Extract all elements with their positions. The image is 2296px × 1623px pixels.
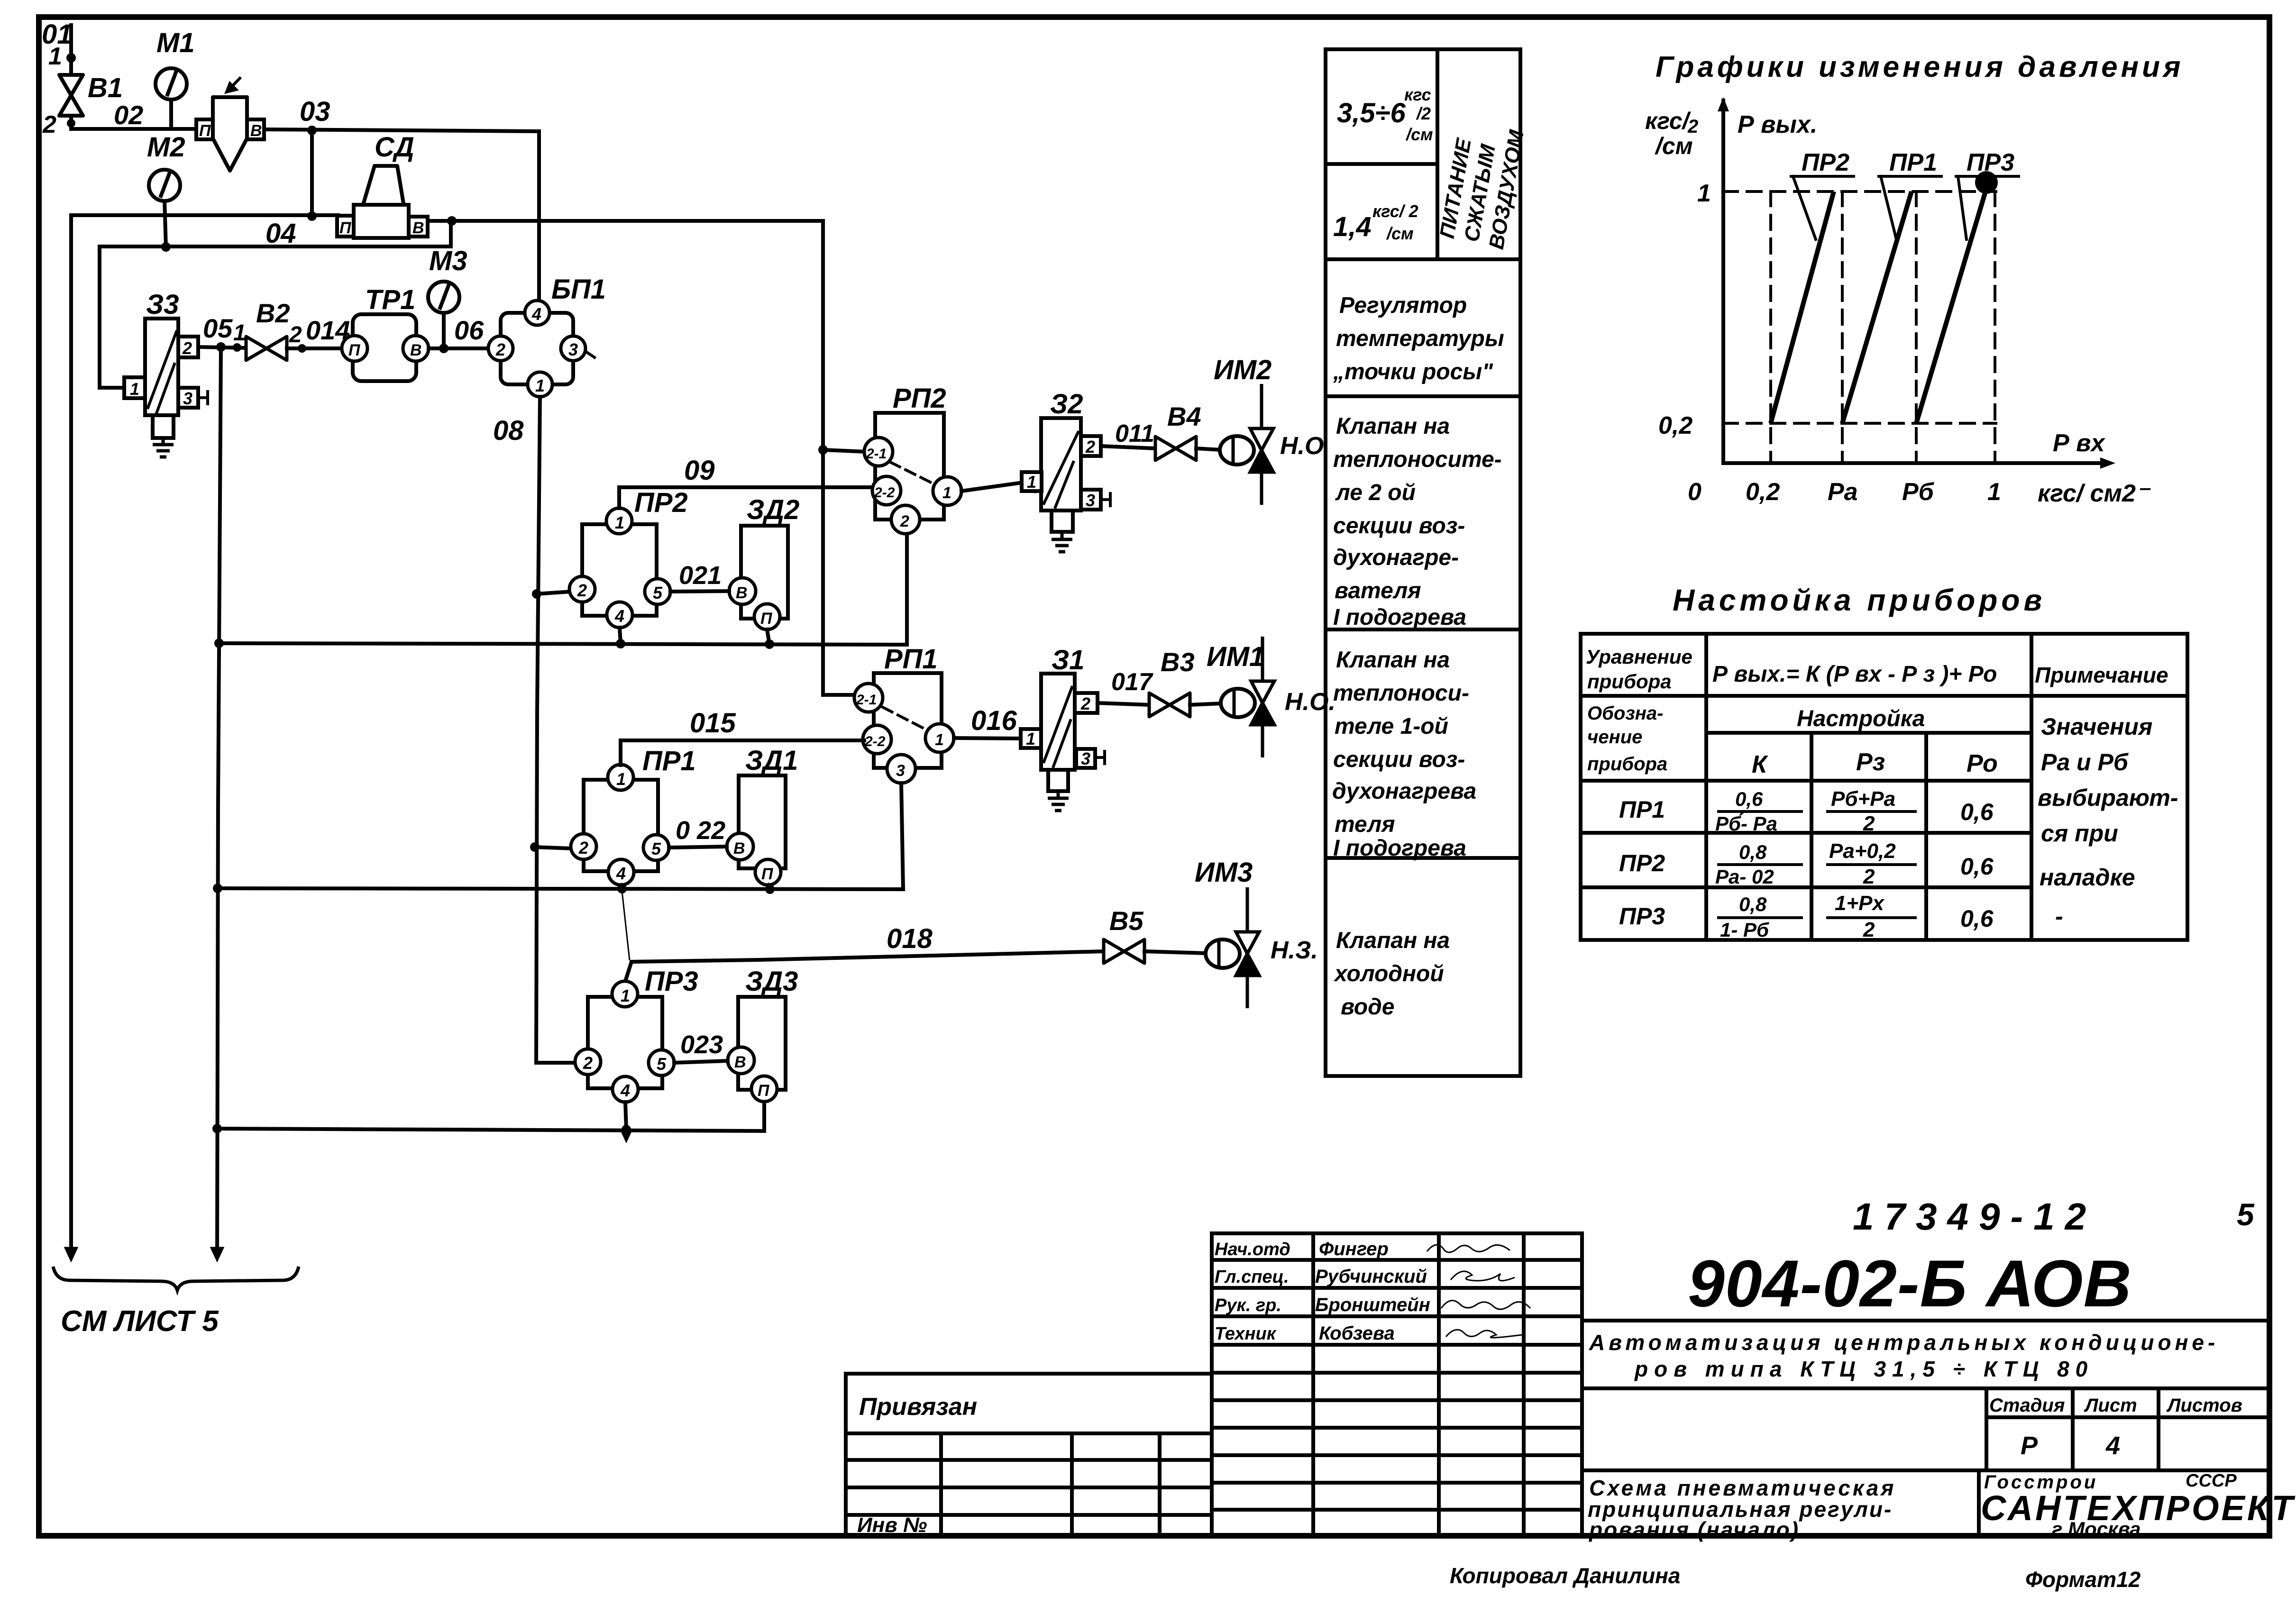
svg-text:Рубчинский: Рубчинский [1315,1266,1427,1287]
dashed vertical Pa [1841,191,1844,463]
gauge M1 [156,68,187,129]
svg-text:температуры: температуры [1336,326,1504,351]
svg-text:Гл.спец.: Гл.спец. [1215,1267,1289,1287]
graph X axis [1723,457,2115,469]
label kgf/cm2 (y axis) [1645,108,1698,159]
svg-text:В: В [734,1053,746,1071]
svg-text:духонагрева: духонагрева [1332,779,1476,804]
organization stamp [1979,1470,2296,1540]
bus A (row 1 common) [219,534,907,649]
svg-text:П: П [339,219,352,237]
svg-text:Уравнение: Уравнение [1586,646,1692,668]
drawing name [1588,1476,1896,1542]
svg-text:2: 2 [583,1053,593,1073]
svg-text:1: 1 [935,731,944,749]
wire 022 [669,847,727,848]
wire 023 [674,1061,728,1063]
svg-text:ЗД1: ЗД1 [745,745,798,776]
svg-text:Ра+0,2: Ра+0,2 [1829,839,1896,863]
svg-text:0,6: 0,6 [1735,788,1763,810]
valve B2 [246,337,287,360]
valve B4 [1155,437,1196,460]
svg-text:Н.З.: Н.З. [1271,937,1318,964]
svg-text:В1: В1 [88,73,123,103]
wire 014 [287,344,355,353]
svg-text:4: 4 [2105,1432,2120,1460]
svg-text:Клапан на: Клапан на [1336,928,1450,953]
svg-text:П: П [760,610,773,628]
svg-text:З2: З2 [1050,389,1083,419]
svg-text:Фингер: Фингер [1319,1239,1389,1259]
svg-text:1: 1 [48,43,62,70]
svg-text:1: 1 [1697,180,1711,207]
label PITANIE SZHATYM VOZDUKHOM (rotated) [1436,128,1529,251]
wire 016 [954,738,1022,739]
svg-text:3: 3 [568,340,578,359]
wire PR3 port4 stem with arrow [621,1102,632,1143]
svg-text:Рб+Ра: Рб+Ра [1831,787,1895,811]
svg-text:5: 5 [653,583,663,602]
svg-text:Рб́- Ра: Рб́- Ра [1715,812,1777,835]
svg-text:теля: теля [1335,812,1395,837]
svg-text:ся при: ся при [2041,820,2118,847]
svg-text:В5: В5 [1109,906,1143,936]
note: values Pa Pb [2038,713,2178,930]
setpoint ZD2 [729,526,788,629]
wire 09 [619,487,875,508]
svg-text:Формат12: Формат12 [2025,1567,2141,1592]
label 3,5-6 kgf/cm2 [1337,85,1433,144]
svg-text:4: 4 [616,864,626,883]
svg-text:П: П [199,122,211,140]
svg-text:Р вх: Р вх [2053,429,2106,457]
svg-text:прибора: прибора [1587,670,1672,693]
component TR1 [342,314,429,381]
relay Z2 [1022,418,1110,552]
svg-text:4: 4 [620,1081,630,1100]
svg-text:2: 2 [182,338,192,358]
svg-text:П: П [758,1082,770,1100]
svg-text:К: К [1752,751,1768,778]
annotation column table [1326,49,1520,1076]
wire 018 [625,951,1105,983]
svg-text:023: 023 [680,1030,723,1059]
svg-text:1: 1 [1987,478,2001,506]
gauge M3 [428,282,459,348]
svg-text:теле 1-ой: теле 1-ой [1335,714,1448,739]
wire 08 branch to PR2 port 2 [537,592,571,594]
svg-text:ле 2 ой: ле 2 ой [1335,480,1416,505]
title block: personnel table [1212,1233,1582,1536]
PR1 K fraction [1715,788,1802,835]
PR3 Pz fraction [1828,892,1915,941]
wire 06 [429,344,488,353]
svg-text:Примечание: Примечание [2035,663,2168,687]
svg-text:2: 2 [42,111,56,138]
svg-text:018: 018 [887,923,933,954]
svg-text:2: 2 [495,340,505,359]
wire node 03 to line 04 [310,130,314,217]
svg-text:2: 2 [577,581,587,600]
svg-text:1: 1 [621,986,630,1005]
PR1 Pz fraction [1828,787,1915,835]
curve PR1 [1842,191,1912,423]
svg-text:2-1: 2-1 [866,446,887,462]
svg-text:0,6: 0,6 [1960,799,1994,825]
svg-text:0,2: 0,2 [1658,412,1692,439]
svg-text:Графики изменения давления: Графики изменения давления [1656,51,2184,83]
svg-text:ПР1: ПР1 [642,746,696,776]
regulator PR2 [569,508,670,628]
component SD (dew-point sensor) [337,166,428,238]
svg-text:2: 2 [1863,918,1875,941]
svg-text:Настройка: Настройка [1797,706,1925,731]
PR3 K fraction [1719,893,1802,941]
svg-text:17349-12: 17349-12 [1853,1195,2096,1238]
wire ZD1 portP stem [768,885,770,889]
svg-text:Клапан на: Клапан на [1336,414,1450,439]
relay Z1 [1021,674,1105,811]
svg-text:РП1: РП1 [884,644,938,675]
svg-text:1: 1 [616,769,626,789]
thin link bus B to line 018 [622,891,630,960]
main stamp area [1582,1233,2269,1536]
regulator PR1 [571,765,669,885]
note: valve heater section 2 [1333,414,1502,630]
PR2 Pz fraction [1828,839,1915,888]
svg-text:016: 016 [971,705,1017,736]
svg-text:0,6: 0,6 [1960,853,1994,880]
svg-text:Регулятор: Регулятор [1339,293,1467,318]
svg-text:09: 09 [684,455,715,486]
svg-text:3,5÷6: 3,5÷6 [1337,98,1406,128]
svg-text:021: 021 [679,561,722,590]
svg-text:секции воз-: секции воз- [1333,747,1465,772]
svg-text:Клапан на: Клапан на [1336,647,1450,673]
svg-text:БП1: БП1 [551,274,606,305]
svg-text:З3: З3 [146,289,179,320]
svg-text:/см: /см [1655,133,1693,159]
svg-text:2-2: 2-2 [874,485,895,501]
svg-text:СД: СД [375,132,414,163]
svg-text:0: 0 [1688,478,1701,506]
svg-text:прибора: прибора [1587,754,1667,775]
svg-text:Значения: Значения [2041,713,2152,740]
personnel row 3 [1215,1295,1530,1315]
long vertical wire to sheet 5 (second riser) [212,347,224,1251]
svg-text:ПР2: ПР2 [634,487,688,518]
svg-text:ПР3: ПР3 [1619,903,1665,930]
svg-text:2: 2 [289,322,302,347]
curve PR3 [1916,191,1985,423]
svg-text:духонагре-: духонагре- [1333,545,1459,570]
note: cold water valve [1333,928,1450,1020]
svg-text:Нач.отд: Нач.отд [1215,1240,1290,1259]
valve B1 [59,75,83,116]
svg-text:Рз: Рз [1856,748,1885,776]
relay RP1 [854,673,954,783]
svg-text:0,8: 0,8 [1739,841,1767,863]
svg-text:Ра- 02: Ра- 02 [1715,866,1774,888]
svg-text:РП2: РП2 [893,383,946,414]
svg-text:ИМ1: ИМ1 [1207,641,1264,672]
wire 03 [264,126,539,301]
wire 04 [71,211,823,226]
svg-text:Автоматизация центральных конд: Автоматизация центральных кондиционе- [1589,1330,2219,1355]
label PR2 (graph) [1791,149,1854,239]
label PR3 (graph) [1956,149,2019,239]
svg-text:Рук. гр.: Рук. гр. [1215,1295,1281,1315]
svg-text:2: 2 [1863,865,1875,888]
svg-text:В: В [733,839,745,857]
svg-text:СМ ЛИСТ 5: СМ ЛИСТ 5 [61,1305,219,1338]
label 1,4 kgf/cm2 [1333,201,1418,243]
wire 010 [961,483,1023,491]
svg-text:5: 5 [657,1054,667,1074]
svg-text:ПР1: ПР1 [1619,796,1665,823]
svg-text:ЗД3: ЗД3 [745,966,798,997]
wire 017 [1098,703,1149,705]
svg-text:2: 2 [578,838,588,857]
svg-text:Рб: Рб [1902,478,1935,506]
svg-text:ИМ2: ИМ2 [1214,355,1271,385]
wire B4 to IM2 [1196,448,1222,450]
svg-text:М3: М3 [429,246,467,276]
svg-text:1: 1 [535,376,545,395]
svg-text:Стадия: Стадия [1989,1395,2065,1416]
svg-text:секции воз-: секции воз- [1333,513,1465,538]
svg-text:Н.О: Н.О [1280,432,1324,460]
filter (air cleaner) [196,77,264,171]
svg-text:2: 2 [900,512,909,530]
label PR1 (graph) [1879,149,1941,239]
svg-text:ров типа КТЦ 31,5 ÷ КТЦ 80: ров типа КТЦ 31,5 ÷ КТЦ 80 [1634,1357,2094,1381]
setpoint ZD1 [727,775,786,885]
svg-text:Инв №: Инв № [857,1514,927,1537]
svg-text:Привязан: Привязан [859,1393,977,1421]
svg-text:1: 1 [942,484,951,502]
svg-text:В3: В3 [1161,647,1195,677]
svg-text:Р вых.: Р вых. [1738,111,1817,138]
svg-text:1: 1 [1026,729,1035,748]
svg-text:наладке: наладке [2040,864,2135,891]
dashed vertical 0,2 [1769,191,1772,463]
svg-text:/см: /см [1386,224,1414,243]
svg-text:1: 1 [233,320,246,346]
svg-text:904-02-Б АОВ: 904-02-Б АОВ [1688,1246,2132,1321]
wire M2 lower branch [100,221,451,388]
long vertical wire to sheet 5 (left) [69,215,73,1251]
settings table [1581,634,2187,940]
personnel row 2 [1215,1266,1515,1287]
svg-text:Ра и Рб: Ра и Рб [2041,749,2129,775]
wire PR1 port4 stem [621,885,622,889]
svg-text:03: 03 [300,96,330,127]
dashed vertical 1 [1994,191,1996,463]
svg-text:кгс/: кгс/ [1645,108,1692,134]
svg-text:СССР: СССР [2186,1471,2237,1491]
bus B (row 2 common) [218,783,903,894]
svg-text:В: В [250,122,262,140]
wire 011 [1101,446,1155,448]
svg-text:Ро: Ро [1967,750,1998,777]
note: valve heater section 1 [1332,647,1476,861]
wire B3 to IM1 [1190,703,1222,705]
relay RP2 [864,413,961,534]
svg-text:/см: /см [1405,125,1433,144]
header: uravnenie pribora [1586,646,1692,693]
brace (see sheet 5) [53,1267,299,1290]
svg-text:2: 2 [1863,812,1875,835]
svg-text:теплоноси-: теплоноси- [1333,681,1469,706]
wire 02 [67,116,197,129]
dashed vertical Pb [1915,191,1918,463]
svg-text:1- Рб: 1- Рб [1720,919,1769,941]
svg-text:З1: З1 [1052,645,1085,675]
svg-text:М1: М1 [156,27,195,58]
actuator IM1 [1221,637,1274,757]
svg-text:Настойка приборов: Настойка приборов [1673,583,2046,617]
svg-text:кгс/ см2⁻: кгс/ см2⁻ [2038,480,2151,507]
svg-text:теплоносите-: теплоносите- [1333,447,1502,472]
arrow end (left riser) [65,1248,77,1261]
svg-text:2: 2 [1687,116,1698,137]
svg-text:ПР1: ПР1 [1889,149,1937,176]
stage/sheet header [1986,1388,2269,1470]
svg-text:2-2: 2-2 [864,734,886,749]
svg-text:-: - [2055,903,2063,930]
svg-text:05: 05 [203,313,233,343]
svg-text:0,6: 0,6 [1960,905,1994,932]
dashed level 1 [1723,190,1996,193]
svg-text:рования (начало): рования (начало) [1588,1517,1800,1542]
PR2 K fraction [1715,841,1802,888]
svg-text:2: 2 [1085,437,1095,456]
actuator IM3 [1206,887,1259,1008]
svg-text:кгс/ 2: кгс/ 2 [1372,201,1418,221]
svg-text:Копировал Данилина: Копировал Данилина [1450,1563,1681,1588]
wire 021 [670,591,729,592]
gauge M2 [149,170,180,247]
svg-text:5: 5 [2237,1197,2255,1232]
svg-text:П: П [761,865,774,883]
svg-text:ПР3: ПР3 [645,966,698,997]
svg-text:г Москва: г Москва [2052,1518,2141,1540]
setpoint ZD3 [728,997,786,1102]
svg-text:Н.О.: Н.О. [1285,688,1336,716]
long vertical wire x=1736 (from line 04 to RP relays) [818,221,852,695]
svg-text:В: В [410,341,422,359]
wire B5 to IM3 [1144,951,1207,953]
svg-text:4: 4 [531,304,541,324]
svg-text:1: 1 [1027,472,1036,492]
svg-text:В4: В4 [1167,401,1201,431]
svg-text:06: 06 [454,315,484,345]
svg-text:Р вых.= К (Р вх - Р з )+ Ро: Р вых.= К (Р вх - Р з )+ Ро [1712,662,1997,687]
svg-text:Кобзева: Кобзева [1319,1323,1395,1344]
svg-text:02: 02 [114,100,143,130]
bus C (row 3 common) [217,1103,764,1134]
node 01 supply line [66,25,76,75]
svg-text:Бронштейн: Бронштейн [1315,1295,1430,1315]
wire 08 vertical (BP1 port 1 down) [530,397,576,1063]
arrow end (second riser) [211,1248,223,1261]
actuator IM2 [1220,384,1273,505]
svg-text:1: 1 [615,513,624,532]
dashed level 0,2 [1723,422,1996,425]
svg-text:ЗД2: ЗД2 [747,494,799,525]
inventory grid [846,1433,1212,1537]
wire 08 branch to PR1 port 2 [535,847,572,848]
svg-text:2: 2 [1080,694,1090,713]
svg-text:ИМ3: ИМ3 [1195,857,1253,888]
svg-text:4: 4 [614,606,624,626]
svg-text:015: 015 [690,708,736,739]
svg-text:холодной: холодной [1333,961,1444,986]
svg-text:кгс: кгс [1404,85,1431,104]
svg-text:0,2: 0,2 [1746,478,1780,506]
svg-text:Ра: Ра [1828,478,1858,506]
header: oboznachenie pribora [1587,703,1667,775]
wire 015 [621,740,864,765]
graph Y axis [1718,97,1729,463]
svg-text:Техник: Техник [1215,1324,1277,1344]
wire PR2 port4 stem [620,628,621,644]
svg-text:Лист: Лист [2084,1395,2137,1416]
svg-text:1+Рх: 1+Рх [1835,892,1885,915]
curve PR2 [1771,191,1834,423]
relay Z3 [124,319,208,457]
valve B3 [1149,693,1190,717]
wire branch to RP2 port 2-1 [823,450,866,452]
svg-text:011: 011 [1115,420,1154,447]
privyazan box [846,1374,1212,1433]
svg-text:воде: воде [1341,994,1394,1020]
svg-text:3: 3 [183,389,192,408]
svg-text:М2: М2 [147,132,185,163]
svg-text:I подогрева: I подогрева [1333,836,1466,861]
svg-text:чение: чение [1587,727,1642,748]
svg-text:04: 04 [265,218,296,249]
svg-text:П: П [348,341,361,359]
svg-text:I подогрева: I подогрева [1333,605,1466,630]
component BP1 [488,301,595,397]
svg-text:В: В [412,219,424,237]
svg-text:08: 08 [493,415,524,446]
svg-text:3: 3 [896,762,905,780]
valve B5 [1104,939,1144,963]
svg-text:вателя: вателя [1335,578,1421,603]
svg-text:0,8: 0,8 [1739,893,1767,915]
svg-text:Листов: Листов [2166,1395,2242,1416]
svg-text:Обозна-: Обозна- [1587,703,1663,724]
svg-text:/2: /2 [1416,104,1431,123]
svg-text:3: 3 [1081,749,1090,768]
personnel row 4 [1215,1323,1522,1344]
svg-text:3: 3 [1086,491,1095,510]
svg-text:1: 1 [130,379,139,399]
personnel row 1 [1215,1239,1510,1259]
svg-text:Р: Р [2021,1432,2038,1460]
svg-text:ТР1: ТР1 [365,284,415,315]
svg-text:ПР2: ПР2 [1619,850,1665,876]
svg-text:выбирают-: выбирают- [2038,784,2178,811]
svg-text:017: 017 [1111,668,1153,696]
wire 05 [198,342,246,352]
svg-text:В: В [736,584,748,602]
svg-text:0 22: 0 22 [676,816,725,845]
note: dew point regulator [1333,293,1504,384]
